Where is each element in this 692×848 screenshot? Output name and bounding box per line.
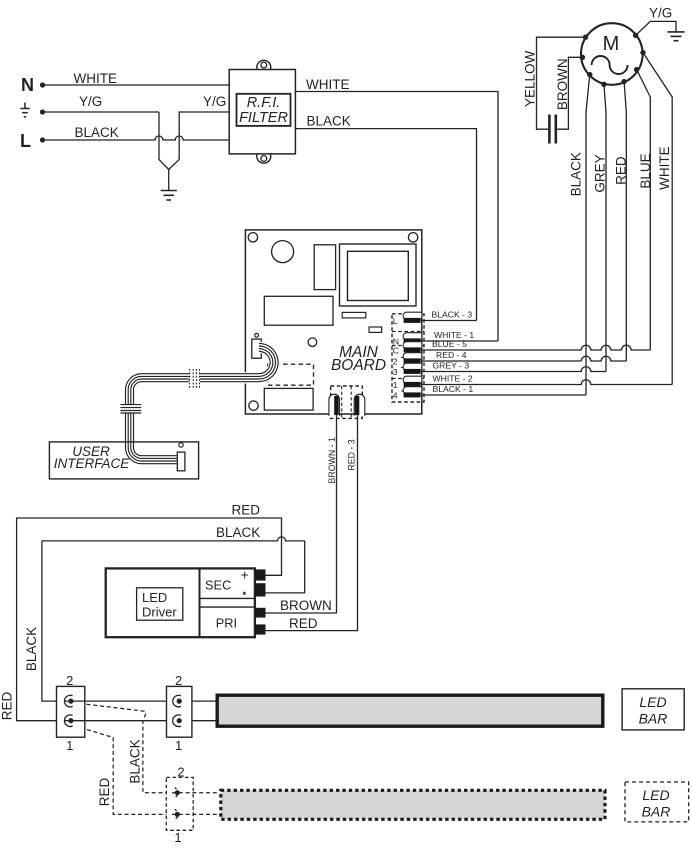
svg-text:R.F.I.: R.F.I.	[247, 95, 281, 111]
LED driver terminals	[255, 569, 266, 634]
node ground terminal dot	[40, 109, 45, 114]
svg-text:M: M	[603, 33, 620, 55]
svg-text:WHITE: WHITE	[657, 146, 672, 190]
connector pin 4 (BLACK-1)	[403, 387, 422, 394]
svg-text:3: 3	[393, 367, 398, 377]
node L terminal dot	[40, 137, 45, 142]
UI connector plug	[177, 452, 185, 471]
wire WHITE from N to RFI filter	[43, 84, 230, 86]
board large capacitor circle	[272, 241, 294, 263]
svg-text:C: C	[393, 345, 399, 355]
svg-text:BLACK: BLACK	[75, 125, 119, 140]
dashed wires from dashed connector to LED bar 2	[172, 793, 219, 815]
connector pin 3 (GREY-3)	[403, 363, 422, 370]
svg-text:BLACK: BLACK	[307, 114, 351, 129]
svg-text:WHITE - 2: WHITE - 2	[433, 374, 473, 384]
board UI connector rect	[252, 339, 261, 358]
chassis ground symbol	[161, 191, 177, 201]
SEC/PRI divider	[199, 568, 201, 637]
svg-text:WHITE: WHITE	[74, 71, 118, 86]
user interface cable harness ribbon wires	[126, 343, 279, 463]
LED BAR 2 strip (dashed)	[221, 790, 605, 819]
board bottom-left rect	[264, 388, 313, 410]
svg-text:PRI: PRI	[216, 615, 237, 630]
connector 1 internal wires	[64, 701, 85, 721]
second LED bar dashed connector body	[166, 777, 193, 830]
board vertical component rect	[314, 245, 335, 290]
board bottom connector dashed box	[331, 386, 363, 418]
svg-text:BLACK: BLACK	[128, 739, 143, 783]
svg-text:GREY: GREY	[593, 154, 608, 192]
wire BLACK-3 row to filter black	[421, 320, 477, 322]
board mounting hole bottom-left	[249, 401, 258, 410]
svg-text:BLACK: BLACK	[569, 152, 584, 196]
wire RED motor lead	[624, 82, 626, 361]
dashed wire BLACK to second LED bar connector	[73, 703, 172, 793]
svg-text:BLACK - 3: BLACK - 3	[432, 310, 473, 320]
wire BLACK from filter to main board pin L (BLACK-3)	[295, 129, 476, 321]
board small rect 1	[342, 312, 366, 318]
LED BAR 1 label box	[622, 689, 684, 730]
svg-text:RED - 3: RED - 3	[346, 439, 356, 470]
connector 1 pin 2 socket	[64, 695, 72, 707]
LED BAR 2 label box (dashed)	[625, 782, 689, 822]
svg-text:4: 4	[393, 390, 398, 400]
svg-text:2: 2	[66, 673, 73, 688]
dashed connector pin 1 socket	[175, 809, 178, 819]
board small rect 2	[369, 327, 382, 332]
connector 2 pin 2 socket	[173, 695, 181, 707]
connector 2 pin 1 socket	[173, 715, 181, 727]
wire BLUE-5 row to motor BLUE (hops)	[421, 345, 650, 350]
wire BLACK from L to RFI filter with hops over Y/G wires	[43, 136, 230, 140]
svg-text:2: 2	[177, 764, 184, 779]
LED driver inner label box	[137, 588, 183, 620]
ground terminal earth symbol	[20, 103, 29, 117]
svg-text:BOARD: BOARD	[331, 357, 386, 374]
svg-text:LED: LED	[142, 590, 167, 605]
connector pin C (BLUE-5)	[403, 342, 422, 349]
LED bar connector 2 body	[167, 686, 192, 737]
dashed wire RED to second LED bar connector	[74, 726, 172, 815]
cable clamp on horizontal harness run	[189, 369, 200, 389]
board mid circle	[308, 338, 317, 347]
wire RED from PRI to main board (RED-3)	[266, 415, 358, 631]
earth ground symbol top right	[668, 32, 685, 41]
wire WHITE-1 row to filter white	[421, 340, 498, 342]
svg-text:GREY - 3: GREY - 3	[433, 361, 470, 371]
wire YELLOW from motor to capacitor	[537, 37, 586, 129]
board transformer outer square	[340, 244, 417, 306]
svg-text:BROWN: BROWN	[555, 58, 570, 110]
wire row 2: connector1 to connector2 to LED bar	[64, 700, 216, 702]
svg-text:BLACK: BLACK	[24, 627, 39, 671]
wire Y/G up-leg from chassis ground to filter	[169, 112, 230, 170]
svg-text:INTERFACE: INTERFACE	[54, 456, 130, 471]
bottom connector pin RED-3	[354, 394, 365, 416]
svg-text:RED: RED	[232, 503, 261, 518]
svg-text:1: 1	[66, 738, 73, 753]
wire BROWN from PRI to main board (BROWN-1)	[266, 415, 337, 613]
wire row 1: connector1 to connector2 to LED bar	[64, 720, 216, 722]
connector pin L (BLACK-3)	[403, 312, 422, 319]
wire Y/G from motor to earth	[636, 21, 676, 35]
svg-text:2: 2	[175, 673, 182, 688]
motor terminal dots	[580, 33, 646, 87]
svg-text:YELLOW: YELLOW	[523, 51, 538, 108]
wire WHITE-2 row to motor WHITE (hop)	[421, 380, 672, 385]
motor M circle	[581, 23, 643, 85]
minus sign	[243, 592, 245, 595]
svg-text:RED - 4: RED - 4	[436, 350, 467, 360]
wire BLUE motor lead	[637, 70, 651, 350]
wire RED-4 row to motor RED (hops)	[421, 356, 626, 361]
svg-text:RED: RED	[289, 616, 318, 631]
svg-text:1: 1	[175, 738, 182, 753]
connector internal dashed dividers	[392, 332, 424, 379]
main board PCB outline	[245, 230, 421, 414]
svg-text:BLACK - 1: BLACK - 1	[433, 384, 474, 394]
board dashed rect	[268, 364, 314, 385]
LED bar connector 1 body	[57, 686, 85, 737]
svg-text:SEC: SEC	[205, 578, 231, 593]
connector pin N (WHITE-1)	[403, 333, 422, 340]
wire BLACK-1 row to motor BLACK	[421, 394, 586, 396]
board transformer inner square	[348, 251, 409, 300]
svg-text:FILTER: FILTER	[239, 110, 288, 126]
board horizontal component rect	[264, 296, 333, 325]
svg-text:Y/G: Y/G	[649, 6, 672, 21]
capacitor C1	[549, 115, 555, 144]
connector pin 2 (RED-4)	[403, 353, 422, 360]
UI connector pin circle	[179, 443, 183, 447]
svg-text:BLACK: BLACK	[216, 525, 260, 540]
node N terminal dot	[40, 82, 45, 87]
RFI filter top mounting ear	[257, 60, 271, 74]
board mounting hole top-right	[408, 233, 417, 242]
RFI filter body U1	[229, 70, 295, 154]
svg-text:1: 1	[174, 830, 181, 845]
motor sine symbol	[592, 56, 628, 74]
svg-text:BLUE: BLUE	[638, 153, 653, 188]
svg-text:RED: RED	[0, 692, 15, 721]
svg-text:BROWN: BROWN	[280, 598, 332, 613]
board mounting hole top-left	[248, 233, 257, 242]
wire BLACK motor lead	[586, 75, 590, 395]
user interface box	[49, 442, 198, 479]
wire WHITE from filter to main board pin N (WHITE-1)	[295, 92, 498, 342]
svg-text:WHITE: WHITE	[306, 77, 350, 92]
cable clamp on vertical harness run	[120, 404, 141, 413]
svg-text:BROWN - 1: BROWN - 1	[327, 437, 337, 484]
svg-text:Y/G: Y/G	[79, 94, 102, 109]
svg-text:LED: LED	[639, 694, 666, 710]
svg-text:LED: LED	[642, 787, 669, 803]
svg-text:RED: RED	[97, 778, 112, 807]
svg-text:RED: RED	[613, 156, 628, 185]
svg-text:BAR: BAR	[642, 804, 671, 820]
wire Y/G from ground terminal	[43, 111, 160, 113]
wire GREY-3 row to motor GREY (hop)	[421, 367, 606, 372]
wire Y/G down-leg to chassis ground	[159, 112, 169, 190]
wire BROWN from motor to capacitor	[557, 57, 582, 129]
wire WHITE motor lead	[643, 53, 672, 385]
wire RED from SEC+ around to connector 1 pin 1	[17, 518, 282, 721]
RFI filter label box	[237, 94, 291, 126]
wire BLACK from SEC- around to connector 1 pin 2 (hop over RED)	[266, 541, 305, 593]
svg-text:1: 1	[393, 380, 398, 390]
wire GREY motor lead	[604, 84, 606, 371]
LED driver box	[106, 568, 255, 637]
svg-text:Y/G: Y/G	[203, 94, 226, 109]
svg-text:L: L	[393, 316, 398, 326]
connector 1 pin 1 socket	[64, 715, 72, 727]
svg-text:N: N	[21, 75, 34, 95]
board tiny circle	[255, 333, 259, 337]
svg-text:BAR: BAR	[639, 711, 668, 727]
dashed connector pin 2 socket	[175, 788, 178, 798]
svg-text:L: L	[20, 131, 31, 151]
svg-text:2: 2	[393, 356, 398, 366]
RFI filter bottom mounting ear	[257, 149, 271, 163]
svg-text:Driver: Driver	[142, 605, 177, 620]
bottom connector pin BROWN-1	[329, 394, 340, 416]
connector pin 1 (WHITE-2)	[403, 376, 422, 383]
wire harness white mask	[130, 347, 275, 459]
LED BAR 1 strip	[217, 695, 603, 726]
svg-text:+: +	[241, 568, 249, 583]
main board output connector outer dashed box	[392, 314, 424, 402]
